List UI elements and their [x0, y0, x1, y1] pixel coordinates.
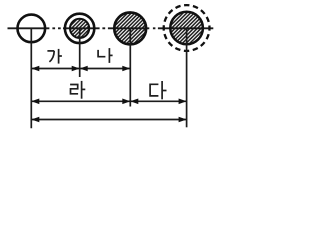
- arrow right of ra: [122, 99, 130, 105]
- wire: centerline dot between circle 2 and 3: [102, 27, 105, 29]
- wire: centerline segment through circle 1: [8, 27, 50, 29]
- wire: centerline dot between circle 3 and 4: [153, 27, 156, 29]
- extension line below circle 2: [79, 28, 81, 77]
- wire: centerline segment through circle 4: [158, 27, 213, 29]
- label ra: [70, 81, 85, 99]
- dimension line row 2 (ra / da): [31, 100, 186, 102]
- arrow left of ra: [31, 99, 39, 105]
- circle 3 : hatched circle: [114, 13, 146, 45]
- dimension line row 3 (overall): [31, 119, 186, 121]
- arrow right of overall: [179, 117, 187, 123]
- arrow left of da: [130, 99, 138, 105]
- extension line below circle 3: [129, 28, 131, 106]
- wire: centerline segment through circle 3: [108, 27, 149, 29]
- arrow left of ga: [31, 66, 39, 72]
- arrow left of overall: [31, 117, 39, 123]
- circle 2 : inner hatched circle: [70, 19, 89, 38]
- extension line below circle 1: [30, 28, 32, 128]
- dimension line row 1 (ga / na): [31, 68, 130, 70]
- arrow right of ga: [72, 66, 80, 72]
- label na: [98, 48, 113, 63]
- circle 4 : dashed outer ring: [164, 5, 210, 51]
- arrow right of da: [179, 99, 187, 105]
- extension line below circle 4: [186, 28, 188, 127]
- wire: centerline dots between circle 1 and 2: [52, 27, 60, 29]
- circle 1 : open circle: [18, 15, 46, 43]
- label da: [150, 81, 166, 99]
- centerline dash-dot through all circles: [8, 27, 214, 29]
- circle 2 : outer ring: [65, 14, 94, 43]
- wire: centerline segment through circle 2: [63, 27, 100, 29]
- arrow right of na: [122, 66, 130, 72]
- arrowheads: [31, 66, 186, 123]
- arrow left of na: [80, 66, 88, 72]
- label ga: [47, 49, 62, 64]
- circle 4 : inner hatched circle: [170, 12, 203, 45]
